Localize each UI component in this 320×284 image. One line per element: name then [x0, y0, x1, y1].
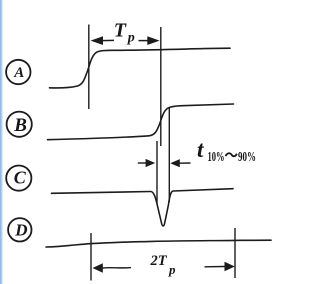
tilde of rise-time label: [226, 153, 237, 156]
svg-text:A: A: [13, 65, 24, 81]
arrow 2Tp right: [205, 262, 235, 271]
wire trace C waveform with negative spike: [52, 189, 234, 226]
tick mark at trace B edge (right Tp boundary): [160, 27, 162, 146]
wire trace A step waveform: [50, 48, 231, 88]
svg-text:T: T: [114, 20, 127, 42]
tick mark 2Tp right boundary: [234, 228, 236, 278]
svg-text:C: C: [14, 168, 27, 188]
wire trace D waveform: [46, 240, 271, 247]
svg-text:2T: 2T: [150, 253, 168, 269]
node C circle: [6, 166, 31, 191]
arrow 2Tp left: [93, 263, 132, 272]
svg-text:B: B: [13, 115, 27, 136]
arrow rise-time left (points right): [138, 159, 155, 167]
arrow Tp left: [91, 36, 115, 45]
tick mark rise-time right (90%): [168, 108, 170, 202]
node A circle: [6, 60, 30, 84]
node D circle: [8, 218, 31, 241]
wire trace B step waveform: [48, 104, 234, 140]
svg-text:10%: 10%: [208, 150, 225, 165]
svg-text:D: D: [14, 220, 27, 239]
svg-text:p: p: [127, 31, 135, 46]
svg-text:90%: 90%: [238, 150, 256, 165]
tick mark at trace A edge (left Tp boundary): [88, 25, 90, 110]
svg-text:t: t: [197, 137, 204, 162]
tick mark rise-time left (10%): [156, 141, 158, 204]
tick mark 2Tp left boundary: [90, 233, 92, 281]
arrow rise-time right (points left): [170, 159, 190, 167]
svg-text:p: p: [168, 262, 176, 277]
node B circle: [7, 112, 32, 137]
arrow Tp right: [139, 36, 160, 45]
